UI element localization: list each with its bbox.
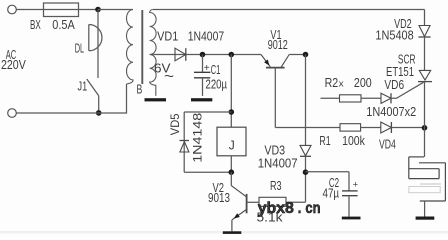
SCR BT151 bbox=[386, 52, 432, 81]
svg-text:1N4148: 1N4148 bbox=[193, 113, 205, 163]
wire top rail to transformer bbox=[98, 9, 133, 11]
diode VD5 bbox=[170, 112, 232, 172]
junction dot VD3 node bbox=[303, 169, 309, 175]
wire relay branch vertical bbox=[230, 55, 232, 128]
node A junction dot top bbox=[95, 7, 101, 13]
svg-text:9013: 9013 bbox=[208, 191, 230, 205]
ground secondary bbox=[145, 98, 167, 101]
wire SCR cathode down bbox=[424, 82, 426, 157]
svg-text:BX: BX bbox=[30, 18, 41, 32]
ground heating element bbox=[416, 217, 435, 220]
wire R3 right to node bbox=[286, 172, 306, 202]
diode VD6 bbox=[366, 78, 416, 119]
wire relay to collector node bbox=[230, 156, 232, 172]
scan artifact band bottom bbox=[0, 231, 448, 234]
svg-text:R1: R1 bbox=[319, 134, 330, 148]
relay J bbox=[217, 127, 246, 156]
wire top rail right bbox=[153, 9, 425, 11]
svg-text:J1: J1 bbox=[78, 80, 88, 94]
svg-text:VD3: VD3 bbox=[264, 143, 285, 157]
resistor R2 bbox=[321, 76, 382, 102]
junction dot V1 right bbox=[303, 52, 309, 58]
svg-text:200: 200 bbox=[354, 76, 372, 90]
switch J1 bbox=[78, 79, 99, 113]
junction dot collector node bbox=[229, 169, 235, 175]
terminal bottom-left bbox=[8, 109, 17, 118]
svg-text:1N4007x2: 1N4007x2 bbox=[366, 105, 416, 119]
junction dot relay branch bbox=[229, 52, 235, 58]
capacitor C1 bbox=[194, 55, 227, 96]
wire VD4 to right rail bbox=[391, 127, 424, 129]
transformer core bbox=[141, 10, 143, 84]
label AC 220V bbox=[1, 48, 26, 72]
svg-text:+: + bbox=[204, 63, 210, 74]
svg-text:C1: C1 bbox=[211, 63, 221, 77]
svg-text:9012: 9012 bbox=[268, 38, 288, 52]
transformer B primary winding bbox=[126, 10, 133, 85]
wire V1 base down bbox=[274, 68, 276, 128]
svg-text:220µ: 220µ bbox=[206, 78, 228, 92]
wire top rail left bbox=[16, 9, 98, 11]
junction dot VD5 top bbox=[229, 109, 235, 115]
svg-text:+: + bbox=[353, 179, 359, 189]
transformer B secondary winding bbox=[150, 9, 157, 95]
junction dot C1 bbox=[200, 52, 206, 58]
svg-text:ybx8: ybx8 bbox=[258, 200, 294, 217]
junction dot bottom rail bbox=[96, 110, 102, 116]
wire VD3 to node dot bbox=[305, 156, 307, 172]
svg-text:VD4: VD4 bbox=[379, 137, 396, 151]
svg-text:47µ: 47µ bbox=[323, 187, 340, 201]
svg-text:cn: cn bbox=[305, 200, 320, 217]
diode VD3 bbox=[258, 143, 311, 170]
svg-text:220V: 220V bbox=[1, 58, 26, 72]
svg-text:VD5: VD5 bbox=[170, 114, 182, 136]
heating element bbox=[409, 157, 446, 217]
svg-text:R2: R2 bbox=[325, 76, 339, 90]
wire VD6 to SCR gate bbox=[391, 82, 424, 98]
label 6V~ bbox=[154, 62, 174, 84]
wire bottom rail bbox=[16, 84, 126, 113]
diode VD1 bbox=[157, 30, 224, 61]
wire base row to R1 bbox=[275, 127, 340, 129]
wire collector to node bbox=[289, 54, 305, 56]
svg-text:1N4007: 1N4007 bbox=[188, 30, 225, 44]
ground V2 emitter bbox=[223, 231, 242, 234]
wire 6V tap rail bbox=[150, 54, 261, 56]
svg-text:R3: R3 bbox=[270, 179, 282, 193]
wire node to C2 bbox=[306, 172, 350, 191]
ground C2 bbox=[342, 217, 361, 220]
ground C1 bbox=[191, 98, 212, 101]
svg-text:~: ~ bbox=[164, 68, 174, 84]
wire node down to VD3 bbox=[305, 55, 307, 146]
svg-text:x: x bbox=[339, 79, 345, 89]
svg-text:B: B bbox=[137, 83, 143, 97]
wire VD2 to SCR bbox=[424, 37, 426, 71]
transistor V1 bbox=[261, 28, 289, 68]
svg-text:DL: DL bbox=[75, 41, 84, 55]
svg-text:ET151: ET151 bbox=[386, 65, 414, 79]
watermark ybx8.cn bbox=[258, 200, 321, 217]
junction dot right rail bbox=[422, 125, 428, 131]
wire DL branch vertical bbox=[97, 10, 99, 79]
transistor V2 bbox=[208, 172, 247, 231]
svg-text:VD6: VD6 bbox=[384, 78, 404, 92]
svg-text:1N4007: 1N4007 bbox=[258, 157, 298, 171]
terminal top-left bbox=[8, 5, 17, 14]
svg-text:0.5A: 0.5A bbox=[52, 18, 75, 32]
fuse BX bbox=[30, 3, 79, 32]
svg-text:.: . bbox=[298, 200, 302, 217]
diode VD4 bbox=[379, 122, 396, 151]
bell DL bbox=[75, 25, 102, 56]
svg-text:100k: 100k bbox=[342, 134, 365, 148]
resistor R3 bbox=[257, 179, 287, 224]
svg-text:VD1: VD1 bbox=[157, 30, 178, 44]
resistor R1 bbox=[319, 124, 380, 148]
svg-text:1N5408: 1N5408 bbox=[375, 29, 413, 43]
capacitor C2 bbox=[323, 176, 359, 217]
diode VD2 bbox=[375, 17, 430, 43]
wire right rail down bbox=[424, 10, 426, 26]
wire V2 base to R3 bbox=[247, 201, 259, 203]
svg-text:J: J bbox=[229, 139, 235, 153]
